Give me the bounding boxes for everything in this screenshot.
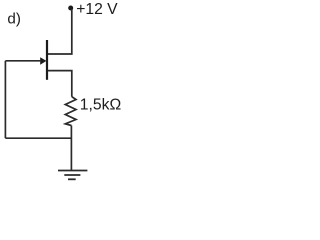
wire gate: left from arrow [5, 60, 41, 62]
wire feedback left vertical [4, 61, 6, 138]
wire resistor to ground [70, 126, 72, 171]
node supply dot [68, 6, 73, 11]
svg-text:d): d) [7, 11, 21, 28]
transistor Q1 gate arrow [40, 57, 46, 64]
ground [58, 171, 87, 180]
wire source: right from transistor then down [48, 71, 72, 97]
svg-text:+12 V: +12 V [76, 1, 118, 18]
svg-text:1,5kΩ: 1,5kΩ [80, 96, 122, 113]
transistor Q1 channel bar [46, 40, 48, 80]
resistor R1 zigzag [65, 97, 76, 126]
wire feedback bottom horizontal [5, 137, 71, 139]
wire drain: from +12V node down then left to transistor [48, 9, 72, 54]
